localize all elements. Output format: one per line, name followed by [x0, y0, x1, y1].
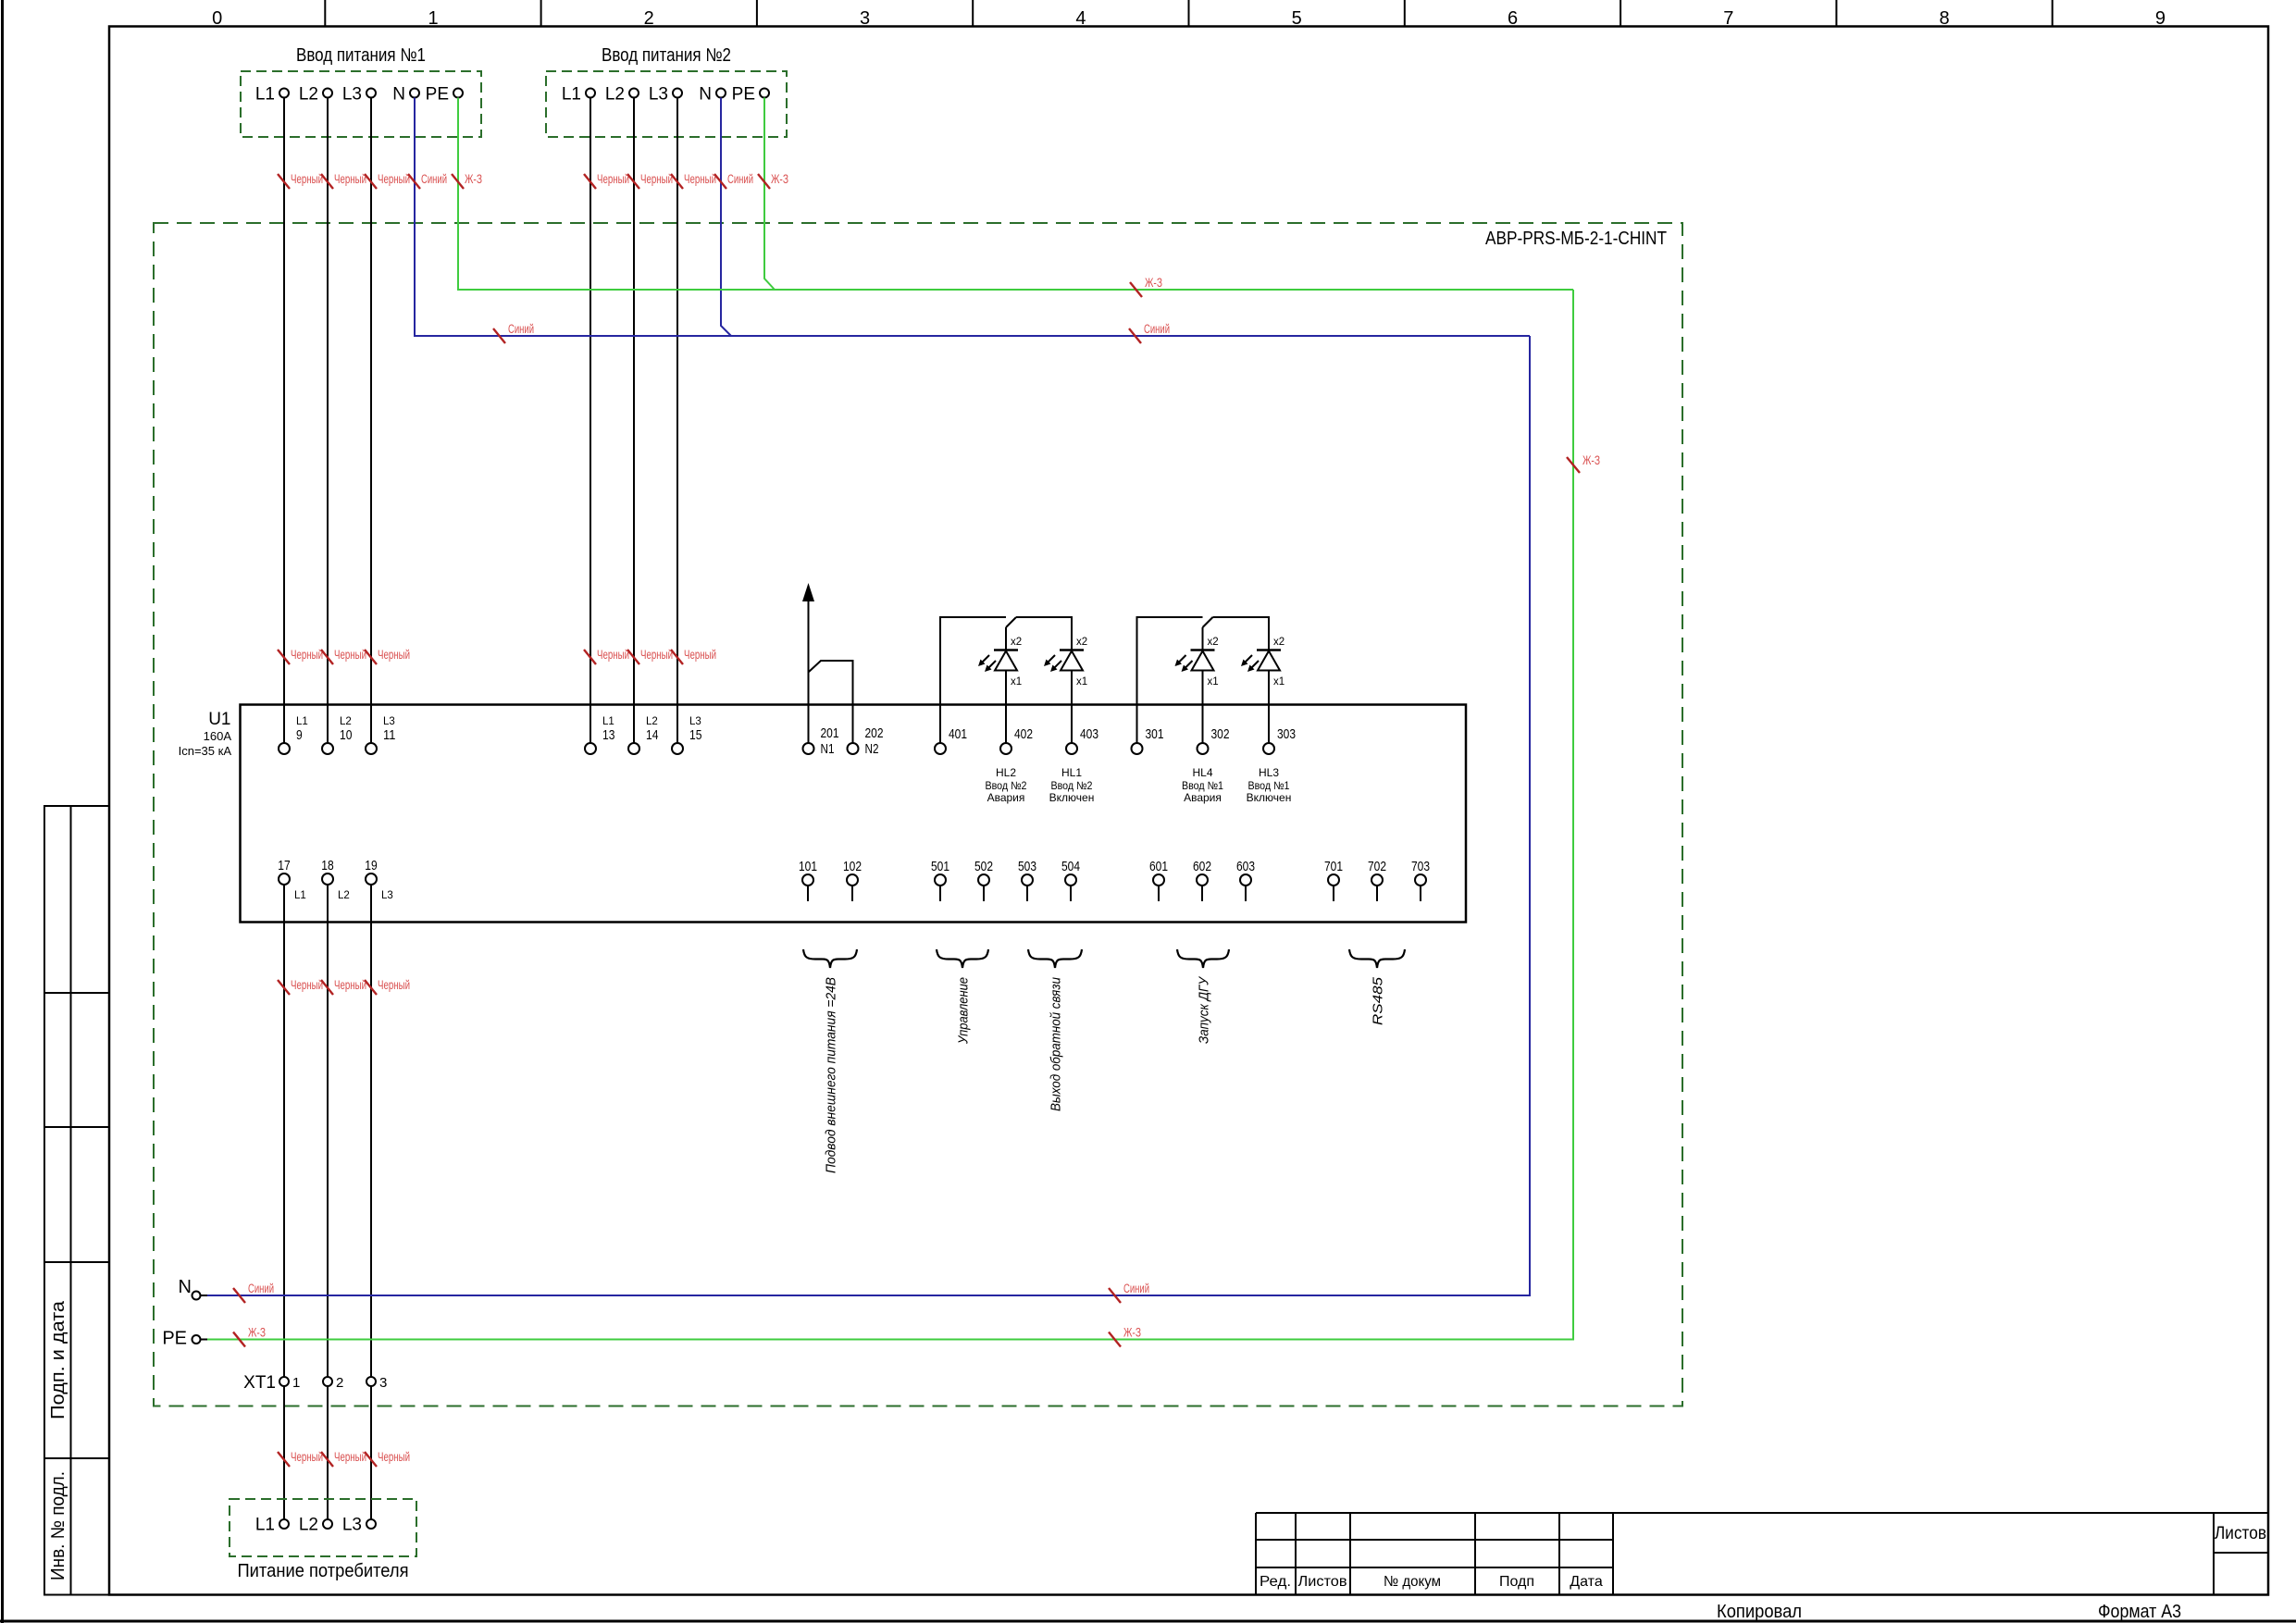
svg-text:Черный: Черный: [291, 172, 323, 186]
wire PE Ввод №2 (yellow-green): [764, 98, 775, 291]
svg-text:702: 702: [1368, 859, 1386, 874]
terminal XT1:1: [279, 1377, 289, 1386]
svg-text:HL2: HL2: [996, 766, 1016, 779]
svg-text:Черный: Черный: [334, 172, 366, 186]
wire label Черный: [627, 174, 639, 189]
wire phase Ввод №1 to U1: [283, 98, 285, 743]
wire label Черный: [365, 650, 377, 664]
wire pin stub: [1201, 886, 1203, 902]
wire label Черный: [321, 650, 333, 664]
svg-text:№ докум: № докум: [1384, 1574, 1441, 1590]
wire phase Ввод №2 to U1: [633, 98, 635, 743]
svg-text:L1: L1: [562, 85, 581, 105]
svg-text:Синий: Синий: [1123, 1282, 1149, 1295]
svg-text:x1: x1: [1273, 676, 1285, 688]
wire PE Ввод №1 (yellow-green): [458, 98, 1573, 291]
svg-text:Включен: Включен: [1247, 791, 1292, 804]
svg-text:Авария: Авария: [987, 791, 1025, 804]
junction blade group 2: [1203, 617, 1213, 627]
svg-text:Черный: Черный: [378, 1450, 410, 1464]
svg-text:x2: x2: [1208, 637, 1219, 648]
svg-text:Листов: Листов: [1298, 1574, 1347, 1590]
svg-text:Подп. и дата: Подп. и дата: [48, 1300, 68, 1419]
brace Управление: [937, 949, 988, 968]
svg-text:Ввод №2: Ввод №2: [1051, 779, 1093, 792]
svg-text:14: 14: [646, 727, 658, 743]
svg-text:Ж-З: Ж-З: [1582, 453, 1600, 467]
svg-text:x2: x2: [1273, 637, 1285, 648]
svg-text:101: 101: [799, 859, 817, 874]
node Питание потребителя: [230, 1499, 416, 1556]
svg-text:501: 501: [931, 859, 949, 874]
svg-text:Синий: Синий: [421, 172, 447, 186]
svg-text:Черный: Черный: [378, 648, 410, 662]
svg-text:L3: L3: [649, 85, 668, 105]
wire PE riser to PE bus (yellow-green): [207, 290, 1573, 1340]
svg-text:Ж-З: Ж-З: [771, 172, 788, 186]
wire phase Ввод №2 to U1: [590, 98, 591, 743]
wire XT1 to consumer: [370, 1387, 372, 1519]
wire pin stub: [983, 886, 985, 902]
svg-text:Ж-З: Ж-З: [248, 1326, 266, 1340]
svg-text:19: 19: [365, 858, 377, 873]
svg-text:Черный: Черный: [640, 172, 673, 186]
svg-text:XT1: XT1: [243, 1373, 276, 1393]
svg-text:2: 2: [336, 1375, 343, 1391]
svg-text:Черный: Черный: [640, 648, 673, 662]
wire HL3 to pin 303: [1268, 671, 1270, 743]
svg-text:502: 502: [974, 859, 993, 874]
wire label Черный: [278, 980, 290, 995]
wire pin stub: [1376, 886, 1378, 902]
svg-text:Подвод внешнего питания =24В: Подвод внешнего питания =24В: [824, 977, 839, 1173]
wire HL2 to pin 402: [1005, 671, 1007, 743]
svg-text:Копировал: Копировал: [1717, 1602, 1802, 1622]
wire pin stub: [939, 886, 941, 902]
wire HL bus group 1: [940, 617, 1006, 743]
wire XT1 to consumer: [327, 1387, 329, 1519]
svg-text:L2: L2: [340, 716, 352, 727]
svg-text:201: 201: [821, 725, 839, 741]
wire label Черный: [627, 650, 639, 664]
svg-text:L3: L3: [342, 1516, 362, 1535]
device U1 circuit breaker: [241, 705, 1467, 923]
svg-text:Выход обратной связи: Выход обратной связи: [1049, 976, 1064, 1111]
svg-text:18: 18: [321, 858, 333, 873]
svg-text:303: 303: [1277, 726, 1296, 742]
wire N Ввод №1 (blue): [415, 98, 1530, 337]
svg-text:PE: PE: [732, 85, 755, 105]
svg-text:202: 202: [865, 725, 884, 741]
wire pin stub: [1070, 886, 1072, 902]
svg-text:HL1: HL1: [1061, 766, 1082, 779]
svg-text:x1: x1: [1208, 676, 1219, 688]
svg-text:Синий: Синий: [508, 322, 534, 336]
brace Подвод внешнего питания =24В: [803, 949, 857, 968]
svg-text:L1: L1: [294, 890, 306, 901]
svg-text:Черный: Черный: [378, 172, 410, 186]
node Ввод питания №1: [241, 71, 481, 137]
wire N riser to N bus (blue): [207, 336, 1530, 1295]
wire pin stub: [1245, 886, 1247, 902]
wire XT1 to consumer: [283, 1387, 285, 1519]
svg-text:Черный: Черный: [597, 172, 629, 186]
wire HL bus group 1b: [1016, 617, 1072, 650]
svg-text:1: 1: [292, 1375, 300, 1391]
wire label Черный: [278, 650, 290, 664]
wire U1 output to XT1: [370, 886, 372, 1377]
svg-text:L1: L1: [255, 1516, 275, 1535]
svg-text:Подп: Подп: [1499, 1574, 1534, 1590]
svg-text:PE: PE: [162, 1329, 187, 1349]
svg-text:11: 11: [383, 727, 395, 743]
svg-text:Черный: Черный: [291, 648, 323, 662]
junction blade group 1: [1006, 617, 1016, 627]
svg-text:Ввод питания №1: Ввод питания №1: [296, 45, 426, 66]
svg-text:L3: L3: [342, 85, 362, 105]
svg-text:301: 301: [1146, 726, 1164, 742]
svg-text:602: 602: [1193, 859, 1211, 874]
LED HL2: [994, 649, 1018, 651]
wire label Черный: [584, 174, 596, 189]
svg-text:15: 15: [689, 727, 701, 743]
wire label Черный: [671, 174, 683, 189]
LED HL3: [1257, 649, 1281, 651]
wire label Синий (N bus bottom left): [233, 1288, 245, 1303]
wire label Черный: [278, 1452, 290, 1467]
svg-text:Ввод №1: Ввод №1: [1182, 779, 1223, 792]
svg-text:Черный: Черный: [334, 978, 366, 992]
svg-text:Ж-З: Ж-З: [465, 172, 482, 186]
cabinet АВР-PRS-МБ-2-1-CHINT enclosure: [154, 223, 1682, 1406]
wire N Ввод №2 (blue): [721, 98, 731, 337]
wire label Синий (N run): [1129, 328, 1141, 343]
svg-text:L1: L1: [296, 716, 308, 727]
wire HL4 to pin 302: [1202, 671, 1204, 743]
svg-text:302: 302: [1211, 726, 1230, 742]
svg-text:Питание потребителя: Питание потребителя: [238, 1561, 409, 1581]
wire label Черный: [365, 174, 377, 189]
svg-text:Формат А3: Формат А3: [2098, 1602, 2181, 1622]
svg-text:L2: L2: [299, 1516, 318, 1535]
wire HL bus group 2: [1137, 617, 1203, 743]
svg-text:Черный: Черный: [291, 978, 323, 992]
svg-text:PE: PE: [426, 85, 449, 105]
svg-text:Синий: Синий: [1144, 322, 1170, 336]
svg-text:HL4: HL4: [1192, 766, 1212, 779]
column ruler: [324, 0, 326, 27]
svg-text:N: N: [699, 85, 712, 105]
svg-text:L2: L2: [646, 716, 658, 727]
wire pin stub: [851, 886, 853, 902]
node Ввод питания №2: [546, 71, 787, 137]
svg-text:Icn=35 кА: Icn=35 кА: [179, 744, 232, 758]
wire N2 to N1 junction: [809, 661, 853, 743]
wire label Синий: [714, 174, 726, 189]
wire HL bus group 2b: [1213, 617, 1270, 650]
svg-text:Ввод №2: Ввод №2: [986, 779, 1027, 792]
svg-text:N2: N2: [865, 741, 879, 757]
svg-text:401: 401: [949, 726, 967, 742]
wire label Черный: [671, 650, 683, 664]
wire HL4 lead: [1202, 627, 1204, 650]
svg-text:x1: x1: [1076, 676, 1087, 688]
wire phase Ввод №1 to U1: [327, 98, 329, 743]
svg-text:L3: L3: [383, 716, 395, 727]
wire U1 output to XT1: [283, 886, 285, 1377]
sheet border: [1, 0, 4, 1623]
wire pin stub: [807, 886, 809, 902]
svg-text:703: 703: [1411, 859, 1430, 874]
svg-text:АВР-PRS-МБ-2-1-CHINT: АВР-PRS-МБ-2-1-CHINT: [1485, 229, 1667, 249]
svg-text:x2: x2: [1011, 637, 1022, 648]
svg-text:Дата: Дата: [1570, 1574, 1603, 1590]
wire HL1 to pin 403: [1071, 671, 1073, 743]
svg-text:Черный: Черный: [684, 648, 716, 662]
wire label Синий: [408, 174, 420, 189]
wire label Черный: [321, 1452, 333, 1467]
svg-text:N1: N1: [821, 741, 835, 757]
svg-text:L2: L2: [338, 890, 350, 901]
svg-text:102: 102: [843, 859, 862, 874]
svg-text:L2: L2: [299, 85, 318, 105]
svg-text:Черный: Черный: [597, 648, 629, 662]
LED HL1: [1060, 649, 1084, 651]
svg-text:Ввод питания №2: Ввод питания №2: [602, 45, 731, 66]
svg-text:Черный: Черный: [684, 172, 716, 186]
arrow N1 to N bus: [808, 601, 810, 743]
svg-text:Синий: Синий: [248, 1282, 274, 1295]
svg-text:Ред.: Ред.: [1260, 1574, 1291, 1590]
wire label Синий (N bus top): [493, 328, 505, 343]
svg-text:17: 17: [278, 858, 290, 873]
wire label Ж-З (PE bus bottom left): [233, 1332, 245, 1347]
svg-text:160A: 160A: [204, 729, 232, 743]
svg-text:Черный: Черный: [291, 1450, 323, 1464]
svg-text:Ввод №1: Ввод №1: [1248, 779, 1290, 792]
svg-text:10: 10: [340, 727, 352, 743]
wire label Ж-З (PE riser): [1567, 457, 1580, 473]
svg-text:HL3: HL3: [1259, 766, 1279, 779]
wire label Ж-З (PE run): [1130, 282, 1142, 297]
wire U1 output to XT1: [327, 886, 329, 1377]
title block: [1256, 1512, 2268, 1514]
brace RS485: [1349, 949, 1405, 968]
terminal XT1:3: [366, 1377, 376, 1386]
svg-text:403: 403: [1080, 726, 1098, 742]
wire label Черный: [584, 650, 596, 664]
svg-text:503: 503: [1018, 859, 1036, 874]
svg-text:Запуск ДГУ: Запуск ДГУ: [1197, 976, 1212, 1044]
wire label Черный: [321, 980, 333, 995]
wire label Ж-З: [452, 174, 464, 189]
wire HL2 lead: [1005, 627, 1007, 650]
wire label Черный: [278, 174, 290, 189]
wire label Ж-З (PE bus bottom mid): [1109, 1332, 1121, 1347]
wire pin stub: [1026, 886, 1028, 902]
svg-text:13: 13: [602, 727, 614, 743]
svg-text:L2: L2: [605, 85, 625, 105]
wire phase Ввод №1 to U1: [370, 98, 372, 743]
brace Запуск ДГУ: [1177, 949, 1229, 968]
svg-text:Листов: Листов: [2215, 1524, 2266, 1543]
svg-text:701: 701: [1324, 859, 1343, 874]
svg-text:601: 601: [1149, 859, 1168, 874]
svg-text:N: N: [179, 1277, 192, 1297]
svg-text:Авария: Авария: [1184, 791, 1222, 804]
svg-text:3: 3: [379, 1375, 387, 1391]
svg-text:603: 603: [1236, 859, 1255, 874]
svg-text:Ж-З: Ж-З: [1145, 276, 1162, 290]
wire label Ж-З: [758, 174, 770, 189]
svg-text:L1: L1: [255, 85, 275, 105]
svg-text:Синий: Синий: [727, 172, 753, 186]
svg-text:x2: x2: [1076, 637, 1087, 648]
svg-text:L1: L1: [602, 716, 614, 727]
wire pin stub: [1420, 886, 1421, 902]
svg-text:x1: x1: [1011, 676, 1022, 688]
svg-text:Черный: Черный: [334, 648, 366, 662]
LED HL4: [1191, 649, 1215, 651]
svg-text:L3: L3: [381, 890, 393, 901]
svg-text:U1: U1: [208, 710, 230, 729]
wire label Черный: [365, 1452, 377, 1467]
terminal XT1:2: [323, 1377, 332, 1386]
brace Выход обратной связи: [1028, 949, 1082, 968]
wire pin stub: [1158, 886, 1160, 902]
svg-text:Управление: Управление: [956, 977, 972, 1045]
svg-text:L3: L3: [689, 716, 701, 727]
svg-text:Черный: Черный: [334, 1450, 366, 1464]
svg-text:402: 402: [1014, 726, 1033, 742]
wire phase Ввод №2 to U1: [676, 98, 678, 743]
svg-text:9: 9: [296, 727, 303, 743]
svg-text:RS485: RS485: [1371, 976, 1386, 1025]
svg-text:Инв. № подл.: Инв. № подл.: [48, 1471, 68, 1580]
wire label Синий (N bus bottom mid): [1109, 1288, 1121, 1303]
svg-text:504: 504: [1061, 859, 1080, 874]
wire pin stub: [1333, 886, 1334, 902]
svg-text:Ж-З: Ж-З: [1123, 1326, 1141, 1340]
svg-text:Черный: Черный: [378, 978, 410, 992]
svg-text:N: N: [392, 85, 405, 105]
svg-text:Включен: Включен: [1049, 791, 1095, 804]
left margin boxes: [44, 806, 109, 1595]
wire label Черный: [365, 980, 377, 995]
wire label Черный: [321, 174, 333, 189]
